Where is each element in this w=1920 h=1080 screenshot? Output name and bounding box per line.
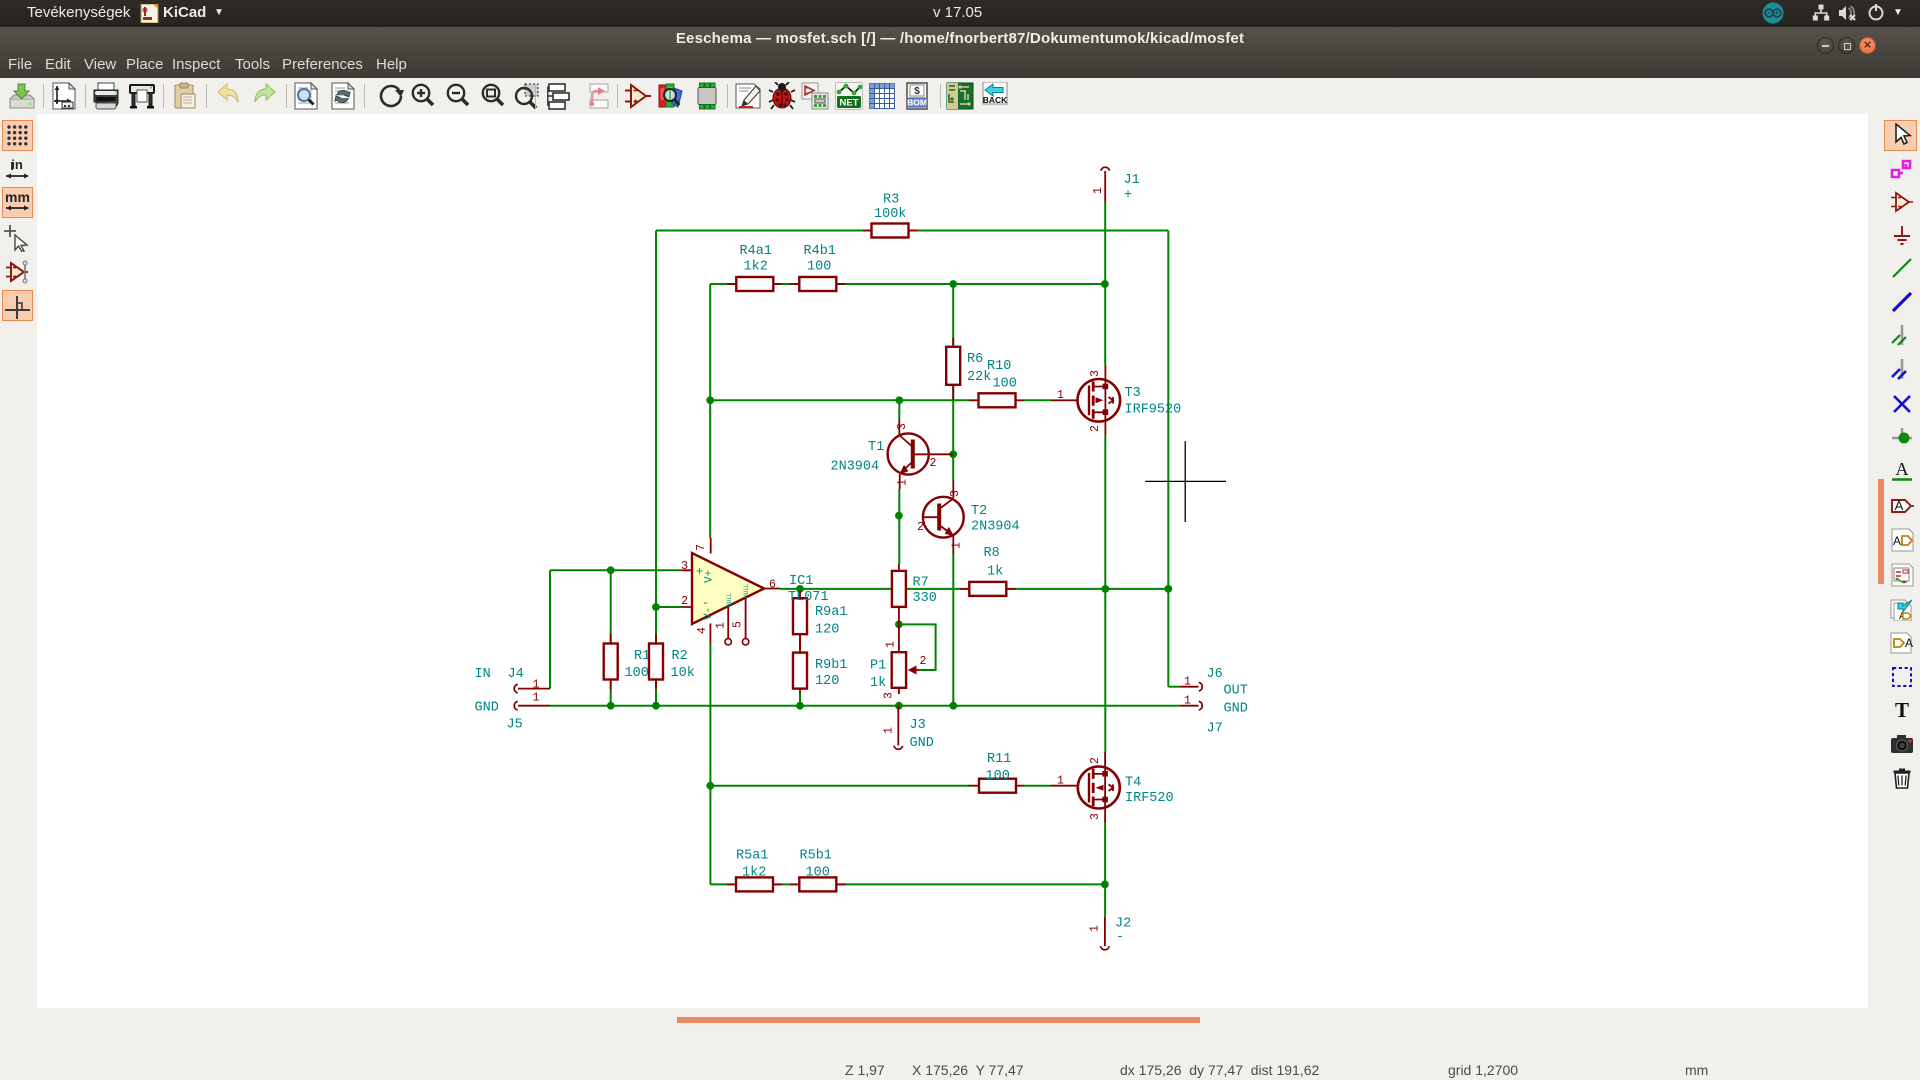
svg-text:T1: T1 xyxy=(868,440,884,455)
svg-text:4: 4 xyxy=(696,627,709,634)
svg-text:NULL: NULL xyxy=(743,583,750,598)
junction R2 gnd xyxy=(652,702,660,710)
op-amp IC1 xyxy=(681,538,828,645)
connector J3 xyxy=(883,706,934,751)
Ubuntu top panel xyxy=(0,0,1920,27)
ERC bug xyxy=(768,82,796,110)
wire gate row T3 xyxy=(710,399,1051,401)
transistor T4 xyxy=(1051,752,1174,823)
wire GND rail xyxy=(550,705,1180,707)
resistor R1 xyxy=(604,634,657,689)
svg-text:1: 1 xyxy=(1089,925,1102,932)
svg-text:2: 2 xyxy=(920,655,927,668)
svg-text:T3: T3 xyxy=(1125,386,1141,401)
find replace xyxy=(329,82,357,110)
cursor crosshair xyxy=(1145,441,1226,522)
svg-text:100: 100 xyxy=(993,377,1017,392)
resistor R8 xyxy=(960,546,1016,596)
annotate xyxy=(734,82,762,110)
svg-text:1k2: 1k2 xyxy=(744,260,768,275)
resistor R2 xyxy=(649,634,695,689)
wire T2 emitter rail xyxy=(952,553,954,706)
wire J6 link xyxy=(1168,686,1180,688)
svg-text:2: 2 xyxy=(917,521,924,534)
svg-text:1: 1 xyxy=(951,542,964,549)
svg-text:+: + xyxy=(696,565,703,579)
zoom fit xyxy=(479,82,507,110)
svg-text:IRF520: IRF520 xyxy=(1125,791,1174,806)
resistor R9a1 xyxy=(793,591,847,653)
wire R5 row xyxy=(710,883,1105,885)
svg-text:7: 7 xyxy=(695,544,708,551)
svg-text:100: 100 xyxy=(986,769,1010,784)
svg-text:2: 2 xyxy=(1089,425,1102,432)
print xyxy=(92,82,120,110)
resistor R5b1 xyxy=(790,849,846,892)
junction R2 top xyxy=(652,603,660,611)
wire IN riser xyxy=(549,570,551,688)
svg-text:J3: J3 xyxy=(910,718,926,733)
right tool column xyxy=(1884,120,1917,151)
wire T1 collector link xyxy=(898,400,900,419)
svg-text:1: 1 xyxy=(715,622,728,629)
wire V- rail xyxy=(709,644,711,884)
svg-text:IRF9520: IRF9520 xyxy=(1125,403,1182,418)
arduino tray icon xyxy=(1762,2,1784,24)
leave sheet xyxy=(582,82,610,110)
resistor R4a1 xyxy=(727,244,782,291)
svg-text:6: 6 xyxy=(769,579,776,592)
junction T2 gnd xyxy=(949,702,957,710)
svg-text:-: - xyxy=(1116,930,1124,945)
svg-text:100k: 100k xyxy=(874,207,906,222)
back xyxy=(981,82,1009,110)
svg-text:1: 1 xyxy=(883,727,896,734)
wire R4 row xyxy=(710,283,1105,285)
resistor R11 xyxy=(969,752,1064,793)
svg-text:J4: J4 xyxy=(508,667,524,682)
svg-text:1: 1 xyxy=(1184,695,1191,708)
wire J1 drop xyxy=(1104,202,1106,365)
resistor R5a1 xyxy=(727,849,782,892)
junction output feedback xyxy=(1164,585,1172,593)
svg-text:GND: GND xyxy=(1224,702,1248,717)
svg-text:1k: 1k xyxy=(987,565,1003,580)
potentiometer P1 xyxy=(870,624,927,699)
svg-text:T2: T2 xyxy=(971,504,987,519)
svg-text:330: 330 xyxy=(913,591,937,606)
svg-text:1: 1 xyxy=(1092,187,1105,194)
redo xyxy=(251,82,279,110)
wire pin3 row xyxy=(550,569,682,571)
wire T4 source down xyxy=(1104,823,1106,916)
svg-text:3: 3 xyxy=(1089,813,1102,820)
zoom in xyxy=(409,82,437,110)
find xyxy=(292,82,320,110)
wire P1 wiper loop xyxy=(902,624,936,670)
svg-text:1: 1 xyxy=(897,479,910,486)
connector J2 xyxy=(1089,917,1132,950)
svg-text:OUT: OUT xyxy=(1224,684,1248,699)
volume icon xyxy=(1838,4,1858,22)
svg-text:1k2: 1k2 xyxy=(742,866,766,881)
resistor R6 xyxy=(946,338,991,400)
svg-text:J5: J5 xyxy=(507,718,523,733)
svg-text:2: 2 xyxy=(681,595,688,608)
left tool column xyxy=(2,120,33,151)
junction V+ rail gate row xyxy=(706,396,714,404)
svg-text:GND: GND xyxy=(475,701,499,716)
junction R1 top xyxy=(607,566,615,574)
svg-text:1: 1 xyxy=(533,679,540,692)
svg-text:R9b1: R9b1 xyxy=(815,658,847,673)
window titlebar xyxy=(0,27,1920,78)
junction R4/J1 xyxy=(1101,280,1109,288)
junction T1 collector xyxy=(895,396,903,404)
svg-text:+: + xyxy=(1124,188,1132,203)
wire top feedback row xyxy=(656,230,1168,232)
zoom out xyxy=(444,82,472,110)
netlist generate xyxy=(801,82,829,110)
svg-text:R7: R7 xyxy=(913,576,929,591)
canvas xyxy=(37,114,1868,1008)
pcbnew xyxy=(946,82,974,110)
svg-text:3: 3 xyxy=(681,560,688,573)
wire R1 drop xyxy=(610,570,612,705)
svg-text:R10: R10 xyxy=(987,359,1011,374)
plot xyxy=(128,82,156,110)
svg-text:R6: R6 xyxy=(967,352,983,367)
svg-text:TL071: TL071 xyxy=(788,590,829,605)
svg-text:R5a1: R5a1 xyxy=(736,849,768,864)
footprints chip xyxy=(693,82,721,110)
junction R9 gnd xyxy=(796,702,804,710)
svg-text:1: 1 xyxy=(1057,389,1064,402)
svg-text:3: 3 xyxy=(1089,370,1102,377)
wire output row xyxy=(780,588,1168,590)
wire pin2 stub xyxy=(656,606,682,608)
transistor T2 xyxy=(917,481,1020,554)
connector J1 xyxy=(1092,167,1140,203)
BOM xyxy=(903,82,931,110)
wire R2 drop xyxy=(655,607,657,706)
svg-text:3: 3 xyxy=(949,490,962,497)
main toolbar xyxy=(0,78,1920,114)
junction T2 base xyxy=(895,512,903,520)
connector J6 xyxy=(1180,667,1248,699)
svg-text:1: 1 xyxy=(533,692,540,705)
svg-text:120: 120 xyxy=(815,623,839,638)
connector J5 xyxy=(475,692,551,733)
resistor R10 xyxy=(969,359,1024,407)
wire T4 gate row xyxy=(710,785,1051,787)
connector J7 xyxy=(1180,695,1248,737)
svg-text:R4a1: R4a1 xyxy=(740,244,772,259)
wire T3 to T4 rail xyxy=(1104,436,1106,752)
library browser xyxy=(657,82,685,110)
svg-text:5: 5 xyxy=(732,621,745,628)
svg-text:R11: R11 xyxy=(987,752,1011,767)
resistor R3 xyxy=(863,193,917,238)
svg-text:GND: GND xyxy=(910,736,934,751)
svg-text:100: 100 xyxy=(806,866,830,881)
svg-text:R1: R1 xyxy=(634,649,650,664)
svg-text:2: 2 xyxy=(1089,757,1102,764)
resistor R9b1 xyxy=(793,634,847,694)
svg-text:J7: J7 xyxy=(1207,722,1223,737)
svg-text:NULL: NULL xyxy=(726,592,733,607)
svg-text:R2: R2 xyxy=(672,649,688,664)
junction output T3 rail xyxy=(1101,585,1109,593)
svg-text:120: 120 xyxy=(815,674,839,689)
wire R6 rail xyxy=(952,284,954,481)
table xyxy=(868,82,896,110)
svg-text:R4b1: R4b1 xyxy=(804,244,836,259)
svg-text:3: 3 xyxy=(896,423,909,430)
svg-text:R8: R8 xyxy=(984,546,1000,561)
paste xyxy=(171,82,199,110)
svg-text:J6: J6 xyxy=(1207,667,1223,682)
svg-text:R9a1: R9a1 xyxy=(815,605,847,620)
svg-text:R5b1: R5b1 xyxy=(800,849,832,864)
wire R9 bottom link xyxy=(799,694,801,706)
junction R1 gnd xyxy=(607,702,615,710)
NET xyxy=(835,82,863,110)
junction T1 base xyxy=(949,450,957,458)
wire V+ rail xyxy=(709,284,711,538)
svg-text:2N3904: 2N3904 xyxy=(971,520,1020,535)
junction P1 gnd xyxy=(895,702,903,710)
wire feedback right rail xyxy=(1167,231,1169,687)
menubar xyxy=(0,55,1,78)
svg-text:IN: IN xyxy=(475,667,491,682)
resistor R4b1 xyxy=(790,244,846,291)
transistor T1 xyxy=(831,419,953,489)
svg-text:3: 3 xyxy=(883,692,896,699)
svg-text:100: 100 xyxy=(807,260,831,275)
hierarchy navigator xyxy=(547,82,575,110)
save xyxy=(8,82,36,110)
svg-text:V+: V+ xyxy=(704,570,716,583)
junction J2 xyxy=(1101,881,1109,889)
svg-text:2N3904: 2N3904 xyxy=(831,460,880,475)
network icon xyxy=(1812,4,1830,22)
zoom selection xyxy=(513,82,541,110)
transistor T3 xyxy=(1051,365,1181,436)
svg-text:T4: T4 xyxy=(1125,776,1141,791)
svg-text:1k: 1k xyxy=(870,676,886,691)
wire T1 emitter chain xyxy=(898,489,900,564)
junction opamp output xyxy=(796,585,804,593)
svg-text:R3: R3 xyxy=(883,193,899,208)
power icon xyxy=(1867,3,1885,21)
junction T4 gate row xyxy=(706,782,714,790)
svg-text:V-: V- xyxy=(703,607,715,620)
svg-text:P1: P1 xyxy=(870,659,886,674)
opamp symbol tool xyxy=(624,82,652,110)
svg-text:2: 2 xyxy=(930,457,937,470)
svg-text:IC1: IC1 xyxy=(789,574,813,589)
status bar xyxy=(0,1040,1920,1080)
junction P1 top xyxy=(895,621,903,629)
wire left rail xyxy=(655,231,657,608)
undo xyxy=(214,82,242,110)
svg-text:1: 1 xyxy=(1184,676,1191,689)
svg-text:1: 1 xyxy=(885,641,898,648)
junction R4/R6 xyxy=(949,280,957,288)
page settings xyxy=(50,82,78,110)
connector J4 xyxy=(475,667,551,693)
resistor R7 xyxy=(892,564,937,624)
svg-text:J1: J1 xyxy=(1124,173,1140,188)
svg-text:10k: 10k xyxy=(671,666,695,681)
redraw xyxy=(377,82,405,110)
